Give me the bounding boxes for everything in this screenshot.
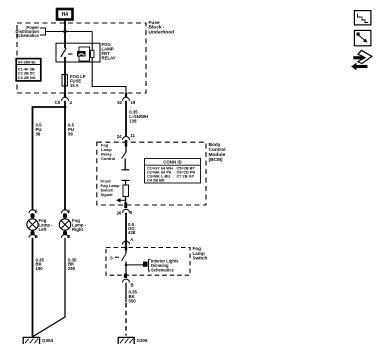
svg-text:X4 (4M B): X4 (4M B) [18, 59, 36, 64]
svg-text:Schematics: Schematics [151, 267, 174, 272]
svg-text:A: A [130, 237, 133, 242]
svg-text:26: 26 [117, 211, 122, 216]
svg-text:Right: Right [72, 227, 84, 232]
svg-text:G304: G304 [42, 338, 54, 343]
svg-text:438: 438 [128, 230, 136, 235]
svg-text:Control: Control [101, 156, 115, 161]
svg-text:Underhood: Underhood [149, 29, 175, 35]
svg-text:B: B [35, 234, 38, 239]
svg-text:CONN ID: CONN ID [163, 160, 182, 165]
svg-text:138: 138 [129, 119, 137, 124]
svg-text:S: S [110, 256, 113, 261]
svg-text:24: 24 [117, 134, 122, 139]
svg-text:H4: H4 [62, 12, 69, 18]
svg-text:250: 250 [68, 266, 76, 271]
svg-text:RELAY: RELAY [102, 56, 116, 61]
svg-text:C3 2B NA: C3 2B NA [18, 75, 36, 80]
svg-text:A: A [67, 208, 70, 213]
svg-text:A: A [35, 208, 38, 213]
svg-text:Switch: Switch [193, 256, 208, 261]
svg-text:150: 150 [36, 266, 44, 271]
svg-text:C8: C8 [55, 100, 61, 105]
svg-text:52: 52 [117, 100, 122, 105]
svg-text:Signal: Signal [101, 192, 113, 197]
svg-text:39: 39 [68, 132, 73, 137]
svg-text:15 A: 15 A [70, 83, 79, 88]
svg-text:C7 2B GY: C7 2B GY [177, 174, 195, 179]
svg-text:C4 2B BK: C4 2B BK [147, 178, 165, 183]
svg-text:19: 19 [131, 100, 136, 105]
svg-text:B: B [131, 283, 134, 288]
svg-text:38: 38 [36, 132, 41, 137]
svg-text:B: B [67, 234, 70, 239]
svg-text:Schematics: Schematics [16, 33, 40, 38]
svg-text:550: 550 [129, 298, 137, 303]
svg-text:G305: G305 [137, 338, 149, 343]
svg-text:Left: Left [39, 227, 47, 232]
svg-text:(BCM): (BCM) [209, 157, 224, 163]
svg-text:11: 11 [130, 133, 135, 138]
